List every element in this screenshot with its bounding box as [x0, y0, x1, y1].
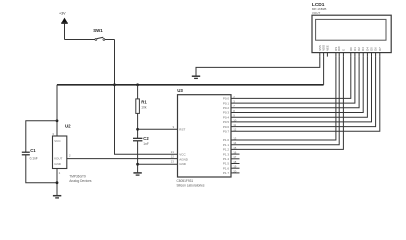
- svg-text:P1.1: P1.1: [223, 143, 230, 147]
- svg-text:Silicon Laboratories: Silicon Laboratories: [177, 184, 205, 188]
- svg-text:10k: 10k: [141, 106, 147, 110]
- svg-text:E: E: [341, 49, 345, 51]
- svg-text:D7: D7: [378, 47, 382, 51]
- svg-text:GND: GND: [54, 162, 62, 166]
- svg-text:Analog Devices: Analog Devices: [69, 179, 92, 183]
- svg-text:1nF: 1nF: [143, 142, 149, 146]
- svg-text:AGND: AGND: [179, 157, 189, 161]
- svg-text:C1: C1: [30, 148, 36, 153]
- svg-text:P1.3: P1.3: [223, 152, 230, 156]
- svg-text:0.1nF: 0.1nF: [30, 156, 38, 160]
- svg-text:VOUT: VOUT: [312, 11, 321, 15]
- svg-text:P0.1: P0.1: [223, 101, 230, 105]
- svg-text:11: 11: [233, 123, 236, 127]
- svg-text:C2: C2: [143, 136, 149, 141]
- svg-text:SW1: SW1: [93, 28, 103, 33]
- svg-text:VEE: VEE: [325, 45, 329, 51]
- svg-text:VCC: VCC: [179, 153, 186, 157]
- svg-text:RST: RST: [179, 128, 185, 132]
- svg-text:P0.4: P0.4: [223, 115, 230, 119]
- svg-text:P1.0: P1.0: [223, 138, 230, 142]
- svg-text:21: 21: [171, 150, 175, 154]
- svg-text:P0.2: P0.2: [223, 106, 230, 110]
- svg-text:P0.0: P0.0: [223, 97, 230, 101]
- svg-text:P0.6: P0.6: [223, 125, 230, 129]
- svg-text:P0.7: P0.7: [223, 130, 230, 134]
- svg-text:22: 22: [171, 155, 175, 159]
- svg-text:10: 10: [233, 118, 237, 122]
- svg-text:P1.2: P1.2: [223, 148, 230, 152]
- svg-text:U2: U2: [65, 124, 71, 129]
- svg-text:P1.4: P1.4: [223, 157, 230, 161]
- svg-text:12: 12: [233, 128, 237, 132]
- svg-text:R1: R1: [141, 99, 147, 104]
- svg-text:VOUT: VOUT: [54, 157, 63, 161]
- svg-text:GND: GND: [179, 162, 187, 166]
- svg-text:P0.3: P0.3: [223, 111, 230, 115]
- svg-text:+3V: +3V: [59, 12, 66, 16]
- svg-text:P0.5: P0.5: [223, 120, 230, 124]
- svg-text:P1.6: P1.6: [223, 166, 230, 170]
- svg-text:P1.5: P1.5: [223, 162, 230, 166]
- svg-text:23: 23: [171, 160, 175, 164]
- svg-text:U3: U3: [177, 88, 183, 93]
- svg-text:VCC: VCC: [54, 139, 61, 143]
- svg-text:P1.7: P1.7: [223, 171, 230, 175]
